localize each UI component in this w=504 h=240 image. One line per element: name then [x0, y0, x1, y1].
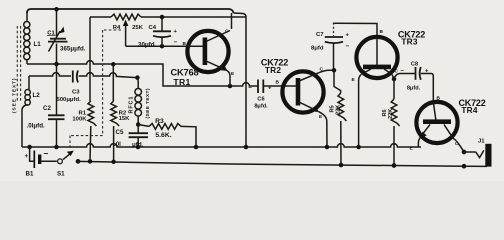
wire: C6 to TR2 base	[263, 85, 296, 87]
variable capacitor C1 365uufd	[56, 9, 58, 37]
wire: vertical feed x246 down to bottom bus	[245, 17, 247, 147]
transistor TR1 CK768	[187, 31, 228, 72]
node: R2 top/upper bus	[111, 62, 116, 67]
wire: wiper line to TR1 base	[126, 45, 186, 47]
potentiometer R4 25K	[111, 14, 141, 20]
transistor TR3 CK722	[356, 37, 397, 78]
battery B1	[30, 147, 35, 161]
wire: rail jog to right vertical	[234, 13, 247, 17]
node: after switch	[76, 159, 81, 164]
wire: bottom bus y147 with hops	[22, 144, 421, 147]
wire: TR1 emitter down to y86	[227, 71, 230, 87]
node: TR2 collector / C7 / R5	[332, 68, 337, 73]
node: TR1 emitter/y86 wire	[228, 84, 233, 89]
antenna dashed leads (SEE TEXT)	[16, 26, 18, 102]
node: C5 bottom	[136, 145, 141, 150]
wire: lower bus y76 (tank to RFC1) with hops	[29, 73, 71, 76]
capacitor C4 30ufd	[161, 17, 163, 31]
jack J1 sleeve bar	[485, 144, 491, 167]
wire: TR2 collector up to C7/R5 node	[319, 70, 334, 73]
node: TR3 emitter	[356, 145, 361, 150]
coil L2	[28, 76, 30, 90]
node: C1/upper bus	[54, 62, 59, 67]
switch S1	[58, 159, 63, 164]
capacitor C2 .01ufd branch	[56, 64, 58, 115]
R4 wiper arrow	[123, 20, 129, 27]
node: C4 bottom	[160, 44, 165, 49]
wire: TR1 collector stub	[231, 13, 233, 29]
coil L1	[26, 12, 28, 22]
transistor TR4 CK722	[416, 102, 457, 143]
node: R2 bottom	[111, 160, 116, 165]
node: C4 top	[160, 15, 165, 20]
node: R3 end	[194, 145, 199, 150]
resistor R5 22K	[334, 70, 341, 93]
wire: battery line (sloped)	[78, 161, 487, 166]
node: B1 tap	[27, 145, 32, 150]
capacitor C6 8ufd	[257, 80, 259, 94]
wire: TR2 emitter down to bus	[319, 112, 328, 147]
wire: top rail	[27, 9, 234, 13]
node: jack sleeve line	[462, 164, 467, 169]
wire: TR4 collector to jack	[453, 138, 464, 152]
node: C2 bottom	[54, 145, 59, 150]
wire: inner rail y17	[90, 16, 111, 18]
resistor R2 15K	[112, 64, 114, 101]
node: collector/jack tip	[462, 150, 467, 155]
capacitor C7 8ufd	[333, 23, 335, 37]
node: R5 bottom	[339, 163, 344, 168]
jack J1 tip contact	[464, 151, 476, 153]
node: TR2 emitter	[325, 145, 330, 150]
node: RFC1 top	[135, 75, 140, 80]
node: R1 bottom	[88, 159, 93, 164]
rf choke RFC1	[136, 78, 139, 89]
capacitor C8 8ufd	[394, 74, 415, 80]
resistor R6 22K	[393, 79, 395, 99]
wire: upper bus y64 with hop over R1 line	[27, 61, 258, 86]
dashed gang link R4/S1	[104, 29, 121, 31]
capacitor C5 .01ufd	[137, 125, 139, 134]
resistor R3 5.6K	[138, 125, 149, 127]
node: C1 top / rail	[54, 7, 59, 12]
wire: C7 top to TR3 base	[334, 23, 378, 37]
wire: TR3 emitter down to bus	[359, 75, 361, 148]
resistor R1 100K	[89, 17, 91, 101]
wire: TR4 emitter to bus	[418, 137, 421, 148]
node: R6 bottom	[392, 163, 397, 168]
node: TR3 collector / C8 / R6	[392, 75, 394, 80]
capacitor C3 500uufd (series plates)	[72, 71, 74, 83]
node: RFC1 bottom / R3 / C5	[136, 122, 141, 127]
transistor TR2 CK722	[282, 71, 323, 112]
node: feed x246	[244, 145, 249, 150]
